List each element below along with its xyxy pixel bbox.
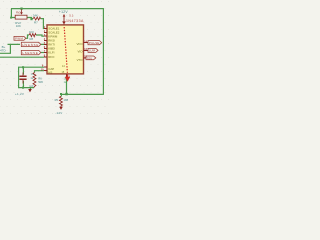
wire top rail (11, 8, 104, 10)
wire bottom rail (61, 93, 103, 95)
capacitor C2 (22, 73, 24, 84)
wire R5 top (60, 94, 62, 96)
power flag +1,2V (28, 89, 32, 92)
svg-text:24K: 24K (33, 14, 38, 18)
resistor R8 (29, 34, 36, 37)
svg-text:RV2: RV2 (16, 12, 21, 15)
svg-text:1N4733A: 1N4733A (66, 19, 84, 23)
svg-text:VFO: VFO (77, 42, 84, 46)
svg-text:VIO: VIO (78, 49, 84, 53)
svg-text:5.1: 5.1 (69, 14, 74, 18)
global label PWM (14, 36, 26, 40)
svg-text:R8: R8 (30, 37, 34, 41)
svg-text:LUM: LUM (89, 49, 96, 53)
svg-text:+1,2V: +1,2V (15, 92, 24, 96)
global label LSENSE (21, 50, 41, 54)
wire LSENSE stub (41, 52, 44, 54)
svg-text:R7: R7 (34, 21, 38, 25)
svg-text:-12V: -12V (55, 111, 62, 115)
wire IC bottom pin to rail (66, 78, 68, 94)
wire R7 to IC pin 1 (41, 19, 45, 29)
grid dots (0, 1, 109, 114)
resistor R7 (33, 17, 41, 20)
svg-text:RFO: RFO (48, 55, 55, 59)
resistor R5 (60, 96, 63, 105)
wire R6 row (35, 71, 45, 73)
wire net 4TD (0, 44, 10, 53)
zener diode 5.1V (62, 21, 66, 24)
svg-text:LSENSE: LSENSE (22, 51, 38, 55)
svg-text:HSENSE: HSENSE (22, 43, 39, 47)
wire R8 to IC (36, 35, 44, 36)
svg-text:4TD: 4TD (0, 49, 7, 53)
global label LED (88, 48, 98, 52)
global label T1 (86, 56, 96, 60)
IC pin numbers (41, 26, 88, 78)
IC left pin stubs (44, 29, 88, 79)
power flag -12V (60, 106, 62, 107)
svg-text:S01: S01 (87, 56, 92, 60)
wire net B+ (8, 43, 45, 45)
svg-text:1uF: 1uF (29, 85, 34, 88)
global label PULSE (88, 41, 102, 45)
wire C2 top rail (19, 67, 44, 87)
svg-text:PULSE: PULSE (89, 41, 99, 45)
svg-text:PWM: PWM (15, 37, 23, 41)
wire right drop (102, 9, 104, 95)
potentiometer RV2 (15, 9, 27, 19)
svg-text:+12V: +12V (59, 10, 69, 14)
svg-text:5R0: 5R0 (38, 80, 43, 84)
wire PWM to R8 (26, 35, 29, 38)
IC pin names (48, 27, 83, 75)
wire C2 leads (22, 67, 24, 87)
svg-text:1K8: 1K8 (64, 98, 69, 102)
wire pot to R7 (27, 18, 32, 19)
svg-text:R6: R6 (38, 76, 42, 80)
svg-text:10K: 10K (16, 24, 21, 28)
wire long left rail (0, 56, 44, 58)
op-amp U1 IC body (47, 25, 84, 74)
svg-text:VTO: VTO (77, 58, 84, 62)
global label HSENSE (21, 42, 41, 46)
annotation dotted arrow (64, 27, 67, 73)
wire power stub (29, 88, 31, 89)
svg-text:1K0: 1K0 (29, 30, 34, 34)
svg-text:R5: R5 (55, 98, 59, 102)
background (0, 0, 112, 120)
svg-text:HS: HS (48, 70, 52, 74)
wire R7 left lead (32, 18, 34, 20)
resistor R6 (33, 73, 36, 88)
junction dots (10, 8, 68, 96)
wire left drop to pot (11, 9, 15, 18)
